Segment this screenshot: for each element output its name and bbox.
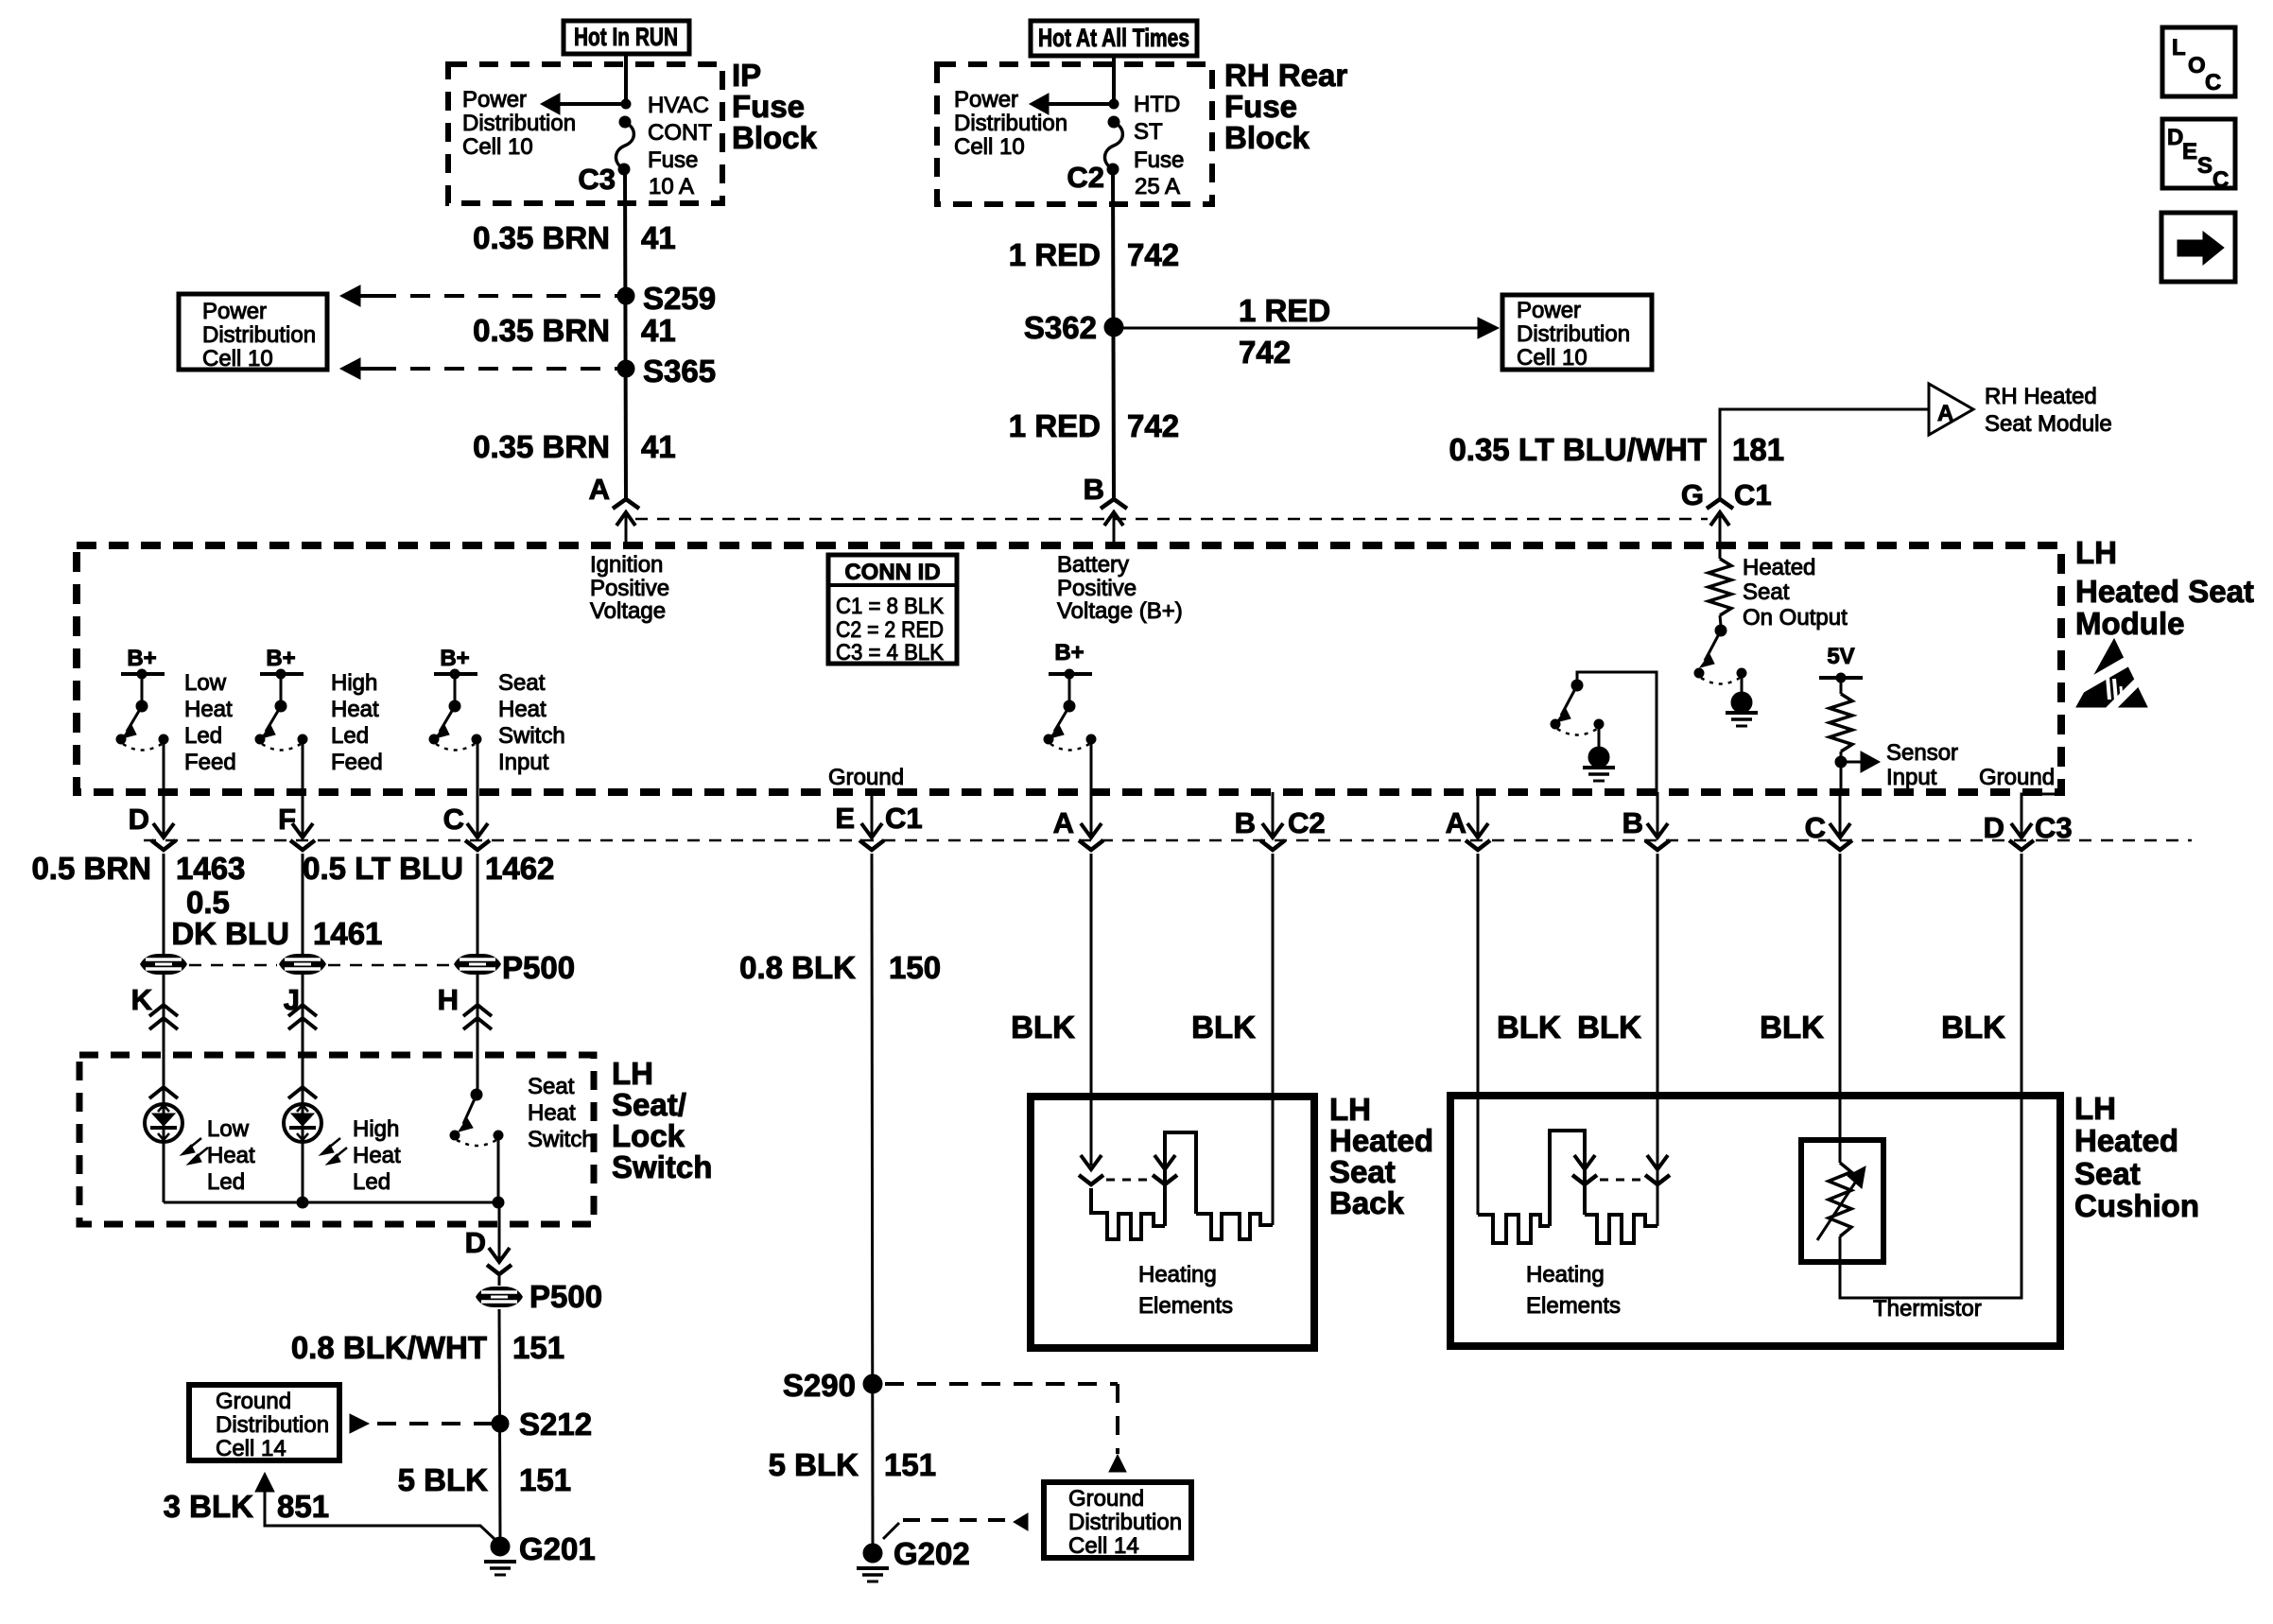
svg-text:C3: C3 (2035, 811, 2073, 844)
dashed arrow S365 to Power Distribution (376, 367, 617, 371)
svg-text:Cushion: Cushion (2074, 1188, 2199, 1223)
svg-text:F: F (278, 803, 296, 836)
ground symbol G201 (484, 1562, 516, 1575)
connector pin D chevrons (151, 792, 176, 850)
svg-text:B: B (1235, 806, 1256, 839)
svg-text:Heat: Heat (207, 1143, 255, 1168)
dashed element continuation (seat back) (1106, 1179, 1150, 1182)
svg-text:C: C (1805, 811, 1826, 844)
svg-text:Heat: Heat (528, 1100, 576, 1126)
svg-text:A: A (1937, 401, 1953, 426)
svg-text:IP: IP (732, 58, 761, 93)
svg-text:BLK: BLK (1760, 1010, 1824, 1045)
svg-text:E: E (835, 802, 855, 835)
svg-text:Heated: Heated (1329, 1123, 1433, 1158)
svg-text:851: 851 (277, 1489, 329, 1524)
svg-text:1462: 1462 (485, 851, 554, 886)
svg-text:D: D (2167, 125, 2183, 150)
svg-text:LH: LH (2075, 535, 2117, 570)
svg-text:BLK: BLK (1497, 1010, 1561, 1045)
svg-text:Heating: Heating (1138, 1262, 1217, 1287)
svg-text:Led: Led (331, 723, 369, 749)
svg-text:Back: Back (1329, 1185, 1405, 1220)
svg-text:C: C (2205, 70, 2221, 95)
svg-text:LH: LH (1329, 1092, 1371, 1127)
svg-text:B+: B+ (127, 646, 156, 671)
svg-text:P500: P500 (529, 1279, 602, 1314)
ground symbol (relay left) (1583, 768, 1615, 781)
svg-text:0.35 BRN: 0.35 BRN (473, 220, 610, 255)
splice S365 (617, 360, 634, 377)
svg-text:G: G (1681, 478, 1704, 511)
svg-text:A: A (1446, 806, 1466, 839)
svg-text:Led: Led (353, 1169, 390, 1195)
svg-text:Seat: Seat (1743, 579, 1790, 605)
svg-text:Heating: Heating (1526, 1262, 1605, 1287)
5V feed bar and sensor resistor (1819, 673, 1880, 792)
connector pin C (C3) chevrons (1828, 792, 1852, 850)
svg-text:E: E (2182, 139, 2197, 164)
svg-text:Heated: Heated (1743, 555, 1815, 580)
LH Seat/Lock Switch dashed box (79, 1055, 594, 1224)
dashed line across P500 connectors (189, 964, 277, 967)
wire pin B (C2) into seat back element (1272, 854, 1275, 1225)
svg-text:Module: Module (2075, 606, 2184, 641)
arrow 851 to Ground Distribution (255, 1473, 274, 1492)
svg-text:Switch: Switch (528, 1127, 595, 1152)
svg-text:Low: Low (207, 1116, 250, 1142)
svg-text:5 BLK: 5 BLK (769, 1447, 859, 1482)
connector pin G (C1) chevrons (1707, 499, 1733, 545)
svg-text:B: B (1084, 473, 1104, 506)
svg-text:High: High (353, 1116, 399, 1142)
svg-text:G201: G201 (519, 1531, 596, 1566)
svg-text:Cell 10: Cell 10 (954, 134, 1025, 160)
svg-text:BLK: BLK (1577, 1010, 1641, 1045)
svg-text:Feed: Feed (331, 750, 383, 775)
dashed arrow S212 to Ground Distribution (377, 1422, 492, 1425)
in-line connector P500 (pin K) (140, 954, 187, 975)
svg-text:Voltage: Voltage (590, 598, 666, 624)
svg-text:Elements: Elements (1526, 1293, 1621, 1319)
svg-text:C2: C2 (1288, 806, 1326, 839)
Power Distribution Cell 10 box (right) (1502, 295, 1652, 370)
LH Heated Seat Cushion box (1450, 1096, 2060, 1346)
svg-text:S362: S362 (1024, 310, 1097, 345)
svg-text:Heated: Heated (2074, 1123, 2178, 1158)
svg-text:Distribution: Distribution (1068, 1510, 1182, 1535)
svg-text:Ground: Ground (216, 1389, 291, 1414)
svg-text:10 A: 10 A (649, 174, 694, 199)
wire to RH Heated Seat Module (1720, 409, 1929, 500)
connector pin F chevrons (290, 792, 315, 850)
svg-text:Power: Power (202, 299, 267, 324)
svg-text:Seat/: Seat/ (612, 1087, 686, 1122)
LH Heated Seat Module dashed box (77, 545, 2061, 792)
svg-text:1463: 1463 (176, 851, 245, 886)
IP Fuse Block dashed box (448, 64, 722, 203)
connector pin B (C2) chevrons (1260, 792, 1285, 850)
relay switch: element return to pin B (C3) (1551, 672, 1657, 792)
splice S212 (492, 1415, 509, 1432)
heating element (cushion, left half) (1478, 1215, 1550, 1243)
wire pin A (C2) into seat back element (1090, 854, 1093, 1166)
svg-text:Fuse: Fuse (1224, 89, 1297, 124)
svg-text:Distribution: Distribution (462, 111, 576, 136)
wire P500 to G201 (499, 1309, 500, 1541)
LED: low heat led (145, 1087, 208, 1165)
svg-text:41: 41 (641, 429, 676, 464)
fuse HTD ST 25A (1104, 116, 1122, 175)
svg-text:Fuse: Fuse (732, 89, 805, 124)
in-line connector P500 (switch ground) (476, 1287, 523, 1307)
thermistor box (1801, 1140, 1883, 1262)
svg-text:Seat: Seat (1329, 1154, 1396, 1189)
svg-text:25 A: 25 A (1135, 174, 1180, 199)
connector pin D (C3) chevrons (2011, 823, 2032, 838)
ground G202 (863, 1544, 882, 1563)
svg-text:C: C (2212, 167, 2229, 193)
connector chevrons (J) (288, 1005, 317, 1016)
wire fuse to pin A (625, 169, 626, 499)
Ground Distribution Cell 14 box (left) (189, 1385, 339, 1460)
svg-text:Ground: Ground (1979, 765, 2055, 790)
svg-text:L: L (2172, 35, 2186, 60)
svg-text:Ground: Ground (828, 765, 904, 790)
svg-text:K: K (131, 983, 153, 1016)
svg-text:5V: 5V (1827, 644, 1854, 669)
arrow to Power Distribution (RH block) (1046, 102, 1114, 106)
svg-text:B: B (1622, 806, 1643, 839)
svg-text:C2 = 2 RED: C2 = 2 RED (836, 617, 944, 643)
dashed arrow S259 to Power Distribution (376, 294, 617, 298)
connector pin E (C1) chevrons (859, 792, 884, 850)
svg-text:Heat: Heat (353, 1143, 401, 1168)
svg-text:C2: C2 (1067, 161, 1104, 194)
svg-text:A: A (1053, 806, 1074, 839)
svg-text:On Output: On Output (1743, 605, 1848, 631)
dashed element continuation (cushion) (1600, 1179, 1643, 1182)
svg-text:S: S (2197, 153, 2212, 179)
svg-text:Sensor: Sensor (1886, 740, 1958, 766)
connector pin B (C1) chevrons (1101, 499, 1127, 545)
svg-text:LH: LH (2074, 1091, 2116, 1126)
svg-text:Led: Led (184, 723, 222, 749)
splice S259 (617, 287, 634, 304)
svg-text:Ground: Ground (1068, 1486, 1144, 1512)
svg-text:0.5 BRN: 0.5 BRN (31, 851, 151, 886)
svg-text:C3 = 4 BLK: C3 = 4 BLK (836, 640, 944, 665)
svg-text:Positive: Positive (1057, 576, 1136, 601)
svg-text:Seat Module: Seat Module (1985, 411, 2112, 437)
svg-text:BLK: BLK (1941, 1010, 2005, 1045)
ESD sensitivity symbol (2076, 639, 2147, 715)
svg-text:1 RED: 1 RED (1239, 293, 1330, 328)
svg-text:C1 = 8 BLK: C1 = 8 BLK (836, 594, 944, 619)
wire pin C (C3) through thermistor (1839, 854, 1842, 1163)
wire switch1 to pin D (163, 744, 165, 792)
svg-text:0.35 BRN: 0.35 BRN (473, 313, 610, 348)
svg-text:B+: B+ (266, 646, 295, 671)
wire pin A (C3) into cushion element (1477, 854, 1480, 1215)
Ground Distribution Cell 14 box (right) (1044, 1482, 1191, 1558)
in-line connector P500 (pin H) (454, 954, 501, 975)
connector triangle A (RH Heated Seat Module) (1929, 384, 1973, 435)
svg-text:HVAC: HVAC (648, 93, 709, 118)
in-line connector P500 (pin J) (279, 954, 326, 975)
svg-text:D: D (1984, 811, 2004, 844)
connector pin D chevrons (below switch box) (489, 1248, 510, 1262)
svg-text:Block: Block (1224, 120, 1310, 155)
svg-text:Seat: Seat (2074, 1156, 2141, 1191)
wire from Hot At All Times into fuse block (1112, 56, 1116, 104)
svg-text:742: 742 (1239, 335, 1291, 370)
svg-text:0.35 BRN: 0.35 BRN (473, 429, 610, 464)
svg-text:Distribution: Distribution (954, 111, 1067, 136)
svg-text:B+: B+ (1054, 640, 1084, 665)
svg-text:DK BLU: DK BLU (171, 916, 289, 951)
svg-text:1461: 1461 (313, 916, 382, 951)
connector pin B (C3) chevrons (1645, 792, 1670, 850)
svg-text:C: C (443, 803, 464, 836)
switch: low heat led feed (116, 669, 168, 751)
wire from Hot In RUN into fuse block (624, 54, 628, 104)
Hot At All Times label box (1031, 21, 1197, 56)
svg-text:C1: C1 (1734, 478, 1772, 511)
wire fuse to pin B (1113, 169, 1114, 499)
svg-text:0.5 LT BLU: 0.5 LT BLU (303, 851, 463, 886)
svg-text:Ignition: Ignition (590, 552, 663, 578)
svg-text:Input: Input (498, 750, 549, 775)
svg-text:0.5: 0.5 (186, 885, 230, 920)
dashed route G202 to Ground Distribution Cell 14 (883, 1523, 899, 1539)
LED: high heat led (284, 1087, 347, 1165)
svg-text:LH: LH (612, 1056, 653, 1091)
svg-text:S290: S290 (783, 1368, 856, 1403)
Power Distribution Cell 10 box (left) (179, 294, 327, 370)
ground G201 (491, 1537, 510, 1556)
heating element (cushion, right half) (1585, 1215, 1657, 1243)
svg-text:D: D (465, 1226, 486, 1259)
arrow to Power Distribution (IP block) (557, 102, 626, 106)
svg-text:High: High (331, 670, 377, 696)
svg-text:Heat: Heat (498, 697, 547, 722)
thin dashed connector C1 line (top) (635, 518, 1708, 521)
svg-text:Heat: Heat (184, 697, 233, 722)
svg-text:Led: Led (207, 1169, 245, 1195)
LED cathode collector wire (164, 1202, 499, 1263)
svg-text:0.8 BLK/WHT: 0.8 BLK/WHT (291, 1330, 487, 1365)
svg-text:Cell 10: Cell 10 (202, 346, 273, 371)
svg-text:1 RED: 1 RED (1009, 408, 1101, 443)
DESC icon box (2162, 119, 2235, 188)
heating element (cushion, bridge with arrow) (1550, 1131, 1585, 1226)
svg-text:O: O (2188, 53, 2206, 78)
svg-text:S259: S259 (643, 281, 716, 316)
svg-text:Switch: Switch (498, 723, 565, 749)
svg-text:C1: C1 (885, 802, 923, 835)
svg-text:Cell 14: Cell 14 (216, 1436, 286, 1461)
svg-text:RH Rear: RH Rear (1224, 58, 1347, 93)
svg-text:CONN ID: CONN ID (844, 560, 940, 585)
svg-text:Seat: Seat (498, 670, 546, 696)
svg-text:Fuse: Fuse (1134, 147, 1184, 173)
svg-text:RH Heated: RH Heated (1985, 384, 2097, 409)
connector chevrons (K) (149, 1005, 178, 1016)
svg-text:Power: Power (954, 87, 1018, 112)
LH Heated Seat Back box (1031, 1097, 1314, 1348)
wire pin C to seat heat switch (477, 854, 479, 1095)
thermistor arrow (1817, 1177, 1859, 1240)
svg-text:1 RED: 1 RED (1009, 237, 1101, 272)
wire switch3 to pin C (477, 744, 479, 792)
svg-text:Low: Low (184, 670, 227, 696)
svg-text:Positive: Positive (590, 576, 669, 601)
svg-text:Distribution: Distribution (216, 1412, 329, 1438)
CONN ID table (828, 555, 957, 664)
heating element (seat back, right half) (1196, 1214, 1273, 1239)
svg-text:Power: Power (462, 87, 527, 112)
svg-text:Switch: Switch (612, 1149, 712, 1184)
connector pin A (C2) chevrons (1079, 792, 1103, 850)
svg-text:151: 151 (519, 1462, 571, 1497)
svg-text:B+: B+ (440, 646, 469, 671)
svg-text:Hot At All Times: Hot At All Times (1038, 24, 1189, 52)
svg-text:41: 41 (641, 220, 676, 255)
svg-text:P500: P500 (502, 950, 575, 985)
connector pin C chevrons (465, 792, 490, 850)
wire battery switch to pin A (C2) (1090, 744, 1093, 792)
svg-text:CONT: CONT (648, 120, 712, 146)
svg-text:Input: Input (1886, 765, 1937, 790)
switch: high heat led feed (255, 669, 307, 751)
svg-text:Seat: Seat (528, 1074, 575, 1099)
resistor: heated seat on output (1694, 545, 1752, 713)
svg-text:BLK: BLK (1011, 1010, 1075, 1045)
svg-text:Hot In RUN: Hot In RUN (574, 23, 678, 51)
wire pin F to LED high (302, 854, 304, 1202)
svg-text:151: 151 (884, 1447, 936, 1482)
seat heat switch (in LH seat/lock switch) (450, 1089, 503, 1202)
svg-text:181: 181 (1732, 432, 1784, 467)
heating element (seat back, bridge with arrow) (1165, 1132, 1196, 1226)
svg-text:H: H (438, 983, 459, 1016)
svg-text:0.8 BLK: 0.8 BLK (739, 950, 856, 985)
svg-text:742: 742 (1127, 408, 1179, 443)
wire pin B (C3) into cushion element (1657, 854, 1659, 1226)
heating element (seat back, left half) (1091, 1188, 1165, 1239)
svg-text:Lock: Lock (612, 1118, 685, 1153)
svg-text:G202: G202 (894, 1536, 970, 1571)
svg-text:S365: S365 (643, 354, 716, 389)
svg-text:HTD: HTD (1134, 92, 1180, 117)
svg-text:Thermistor: Thermistor (1873, 1296, 1982, 1322)
svg-text:5 BLK: 5 BLK (398, 1462, 489, 1497)
svg-text:Distribution: Distribution (1517, 321, 1630, 347)
splice S362 (1104, 318, 1123, 337)
svg-text:150: 150 (889, 950, 941, 985)
wire pin E to G202 (872, 854, 873, 1547)
connector pin A (C3) chevrons (1466, 792, 1490, 850)
svg-text:Fuse: Fuse (648, 147, 698, 173)
svg-text:151: 151 (512, 1330, 564, 1365)
svg-text:A: A (589, 473, 610, 506)
ground symbol G202 (857, 1568, 889, 1581)
RH Rear Fuse Block dashed box (937, 64, 1212, 204)
svg-text:Heat: Heat (331, 697, 379, 722)
switch: battery positive feed (1044, 669, 1096, 751)
svg-text:D: D (129, 803, 149, 836)
svg-text:742: 742 (1127, 237, 1179, 272)
svg-text:3 BLK: 3 BLK (164, 1489, 254, 1524)
svg-text:Cell 10: Cell 10 (1517, 345, 1588, 371)
svg-text:Cell 10: Cell 10 (462, 134, 533, 160)
LOC icon box (2162, 27, 2235, 96)
connector chevrons (H) (463, 1005, 492, 1016)
ground symbol (relay right) (1726, 713, 1758, 726)
svg-text:Cell 14: Cell 14 (1068, 1533, 1139, 1559)
svg-text:Power: Power (1517, 298, 1581, 323)
internal ground wire to pin D (C3) (2021, 794, 2061, 836)
arrow S362 to Power Distribution (right) (1114, 327, 1481, 330)
switch: seat heat switch input (429, 669, 481, 751)
connector pin A (C1) chevrons (613, 499, 639, 545)
splice S290 (863, 1374, 882, 1393)
svg-text:Distribution: Distribution (202, 322, 316, 348)
svg-text:Block: Block (732, 120, 818, 155)
fuse HVAC CONT 10A (616, 116, 633, 175)
svg-text:C3: C3 (578, 163, 616, 196)
dashed route S290 to Ground Distribution Cell 14 (885, 1382, 1118, 1386)
svg-text:S212: S212 (519, 1407, 592, 1442)
forward arrow icon box (2161, 213, 2235, 282)
svg-text:BLK: BLK (1191, 1010, 1256, 1045)
svg-text:Feed: Feed (184, 750, 236, 775)
wire switch2 to pin F (302, 744, 304, 792)
svg-text:0.35 LT BLU/WHT: 0.35 LT BLU/WHT (1449, 432, 1707, 467)
svg-text:Battery: Battery (1057, 552, 1129, 578)
Hot In RUN label box (564, 21, 689, 54)
svg-text:Elements: Elements (1138, 1293, 1233, 1319)
thin dashed connector line (bottom) (144, 839, 2192, 842)
wire pin D to LED low (163, 854, 165, 1202)
svg-text:41: 41 (641, 313, 676, 348)
svg-text:Voltage (B+): Voltage (B+) (1057, 598, 1183, 624)
svg-text:Heated Seat: Heated Seat (2075, 574, 2254, 609)
svg-text:ST: ST (1134, 119, 1163, 145)
